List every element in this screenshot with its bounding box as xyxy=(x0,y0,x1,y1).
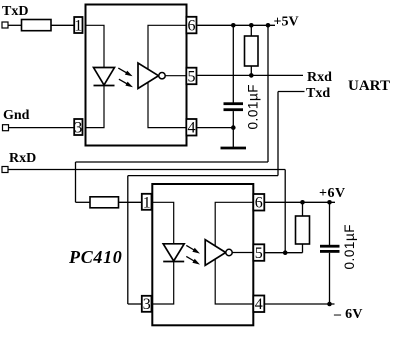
U2 pin 1 xyxy=(142,194,152,210)
resistor R (TxD series) xyxy=(22,20,52,31)
svg-text:UART: UART xyxy=(348,78,390,94)
svg-text:5: 5 xyxy=(188,68,196,85)
svg-text:4: 4 xyxy=(188,120,196,137)
svg-text:Txd: Txd xyxy=(306,86,330,101)
junction dot C2 tap xyxy=(327,200,332,205)
U1 pin 4 xyxy=(186,119,196,136)
svg-text:Gnd: Gnd xyxy=(3,108,30,123)
svg-text:5: 5 xyxy=(255,245,263,262)
U1 pin 1 xyxy=(74,17,82,33)
wire RxD vertical down to U2 pin5 node xyxy=(284,170,286,253)
pullup resistor R1 xyxy=(250,25,252,36)
svg-text:3: 3 xyxy=(143,296,151,313)
U2 pin 5 xyxy=(253,244,264,260)
capacitor C1 0.01uF xyxy=(232,25,234,102)
wire U2 pin5 to R3 bottom xyxy=(265,252,303,254)
wire +5V feed down left side xyxy=(75,162,77,202)
wire Txd vertical xyxy=(277,92,279,176)
resistor R2 (U2 LED series) xyxy=(90,197,119,208)
U1 pin 6 xyxy=(186,17,196,34)
U2 pin 3 xyxy=(142,296,152,312)
wire Txd from UART label xyxy=(278,91,305,93)
U1 pin 5 xyxy=(186,68,196,85)
wire Txd horizontal xyxy=(128,175,278,177)
junction dot (pullup R1 tap) xyxy=(249,23,254,28)
wire R2 to U2 pin1 xyxy=(119,201,142,203)
photo-detector buffer U1 xyxy=(138,63,159,89)
U2 internal wire pin1 to LED anode xyxy=(152,202,173,244)
inverter bubble U1 xyxy=(159,73,165,79)
svg-text:PC410: PC410 xyxy=(68,247,123,267)
+5V rail from U1 pin6 xyxy=(197,24,275,26)
opto-coupler U2 body xyxy=(152,184,253,325)
junction dot (+5V feed to U2) xyxy=(266,23,271,28)
wire Txd down left xyxy=(127,176,129,304)
junction dot C1/pin4 xyxy=(231,125,236,130)
svg-text:1: 1 xyxy=(143,194,151,211)
U1 internal wire pin1 to LED anode xyxy=(86,25,105,67)
wire +5V feed down to U2 LED (vertical from +5V rail) xyxy=(267,25,269,162)
terminal Gnd xyxy=(3,125,9,131)
light arrows U1 xyxy=(118,68,127,73)
junction dot (cap C1 tap) xyxy=(231,23,236,28)
light arrows U2 xyxy=(186,245,195,250)
Rxd line from U1 pin5 xyxy=(197,74,303,76)
svg-text:6: 6 xyxy=(255,195,263,212)
wire Gnd terminal to opto1 pin3 xyxy=(9,127,75,129)
junction dot C2/pin4 xyxy=(327,302,332,307)
svg-text:+5V: +5V xyxy=(274,15,299,30)
svg-text:1: 1 xyxy=(74,18,82,35)
svg-text:0.01µF: 0.01µF xyxy=(246,84,261,130)
wire to R2 xyxy=(76,201,91,203)
pullup resistor R3 xyxy=(302,202,304,216)
junction dot R1/pin5 xyxy=(249,73,254,78)
U1 detector supply rail pin6 to pin4 (behind buffer) xyxy=(148,25,187,127)
svg-text:RxD: RxD xyxy=(9,151,36,166)
terminal RxD xyxy=(2,167,8,173)
LED D1 inside U1 xyxy=(94,68,115,86)
inverter bubble U2 xyxy=(226,249,232,255)
wire TxD terminal to resistor xyxy=(8,24,22,26)
junction dot RxD/pin5 xyxy=(283,250,288,255)
photo-detector buffer U2 xyxy=(205,240,226,266)
LED D2 inside U2 xyxy=(163,244,184,261)
wire resistor to opto1 pin1 xyxy=(51,24,74,26)
svg-text:+6V: +6V xyxy=(319,186,346,201)
wire U2 pin4 to -6V xyxy=(265,303,335,305)
U2 detector supply rail pin6 to pin4 (behind buffer) xyxy=(215,202,253,304)
terminal TxD xyxy=(2,22,8,28)
U2 pin 6 xyxy=(253,194,264,211)
wire RxD terminal across to right xyxy=(8,169,285,171)
wire Txd to U2 pin3 xyxy=(128,303,142,305)
U2 pin 4 xyxy=(253,296,264,313)
U1 pin 3 xyxy=(74,119,82,135)
svg-text:0.01µF: 0.01µF xyxy=(342,224,357,270)
junction dot R3 tap xyxy=(300,200,305,205)
U1 internal wire LED cathode to pin3 xyxy=(86,86,105,128)
svg-text:Rxd: Rxd xyxy=(307,70,332,85)
ground bar xyxy=(221,147,247,150)
wire U1 pin4 to ground xyxy=(197,127,233,129)
svg-text:TxD: TxD xyxy=(2,4,28,19)
wire bubble to pin5 xyxy=(232,252,253,254)
capacitor C2 0.01uF xyxy=(329,202,331,245)
svg-text:6: 6 xyxy=(188,18,196,35)
opto-coupler U1 body xyxy=(86,5,187,146)
svg-text:– 6V: – 6V xyxy=(333,307,363,322)
svg-text:3: 3 xyxy=(74,120,82,137)
+6V rail from U2 pin6 xyxy=(265,201,336,203)
wire bubble to pin5 xyxy=(165,75,186,77)
U2 internal wire LED cathode to pin3 xyxy=(152,262,173,305)
wire +5V feed horizontal xyxy=(76,161,269,163)
svg-text:4: 4 xyxy=(255,296,263,313)
